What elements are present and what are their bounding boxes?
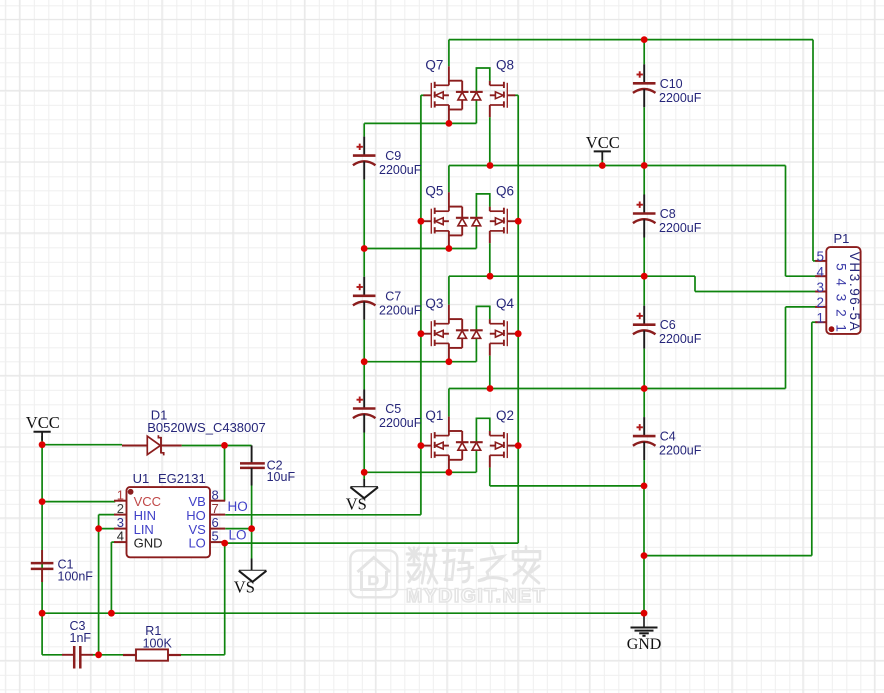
svg-text:HO: HO — [186, 508, 206, 523]
svg-text:Q2: Q2 — [496, 408, 514, 423]
svg-text:4: 4 — [117, 529, 124, 544]
svg-text:C10: C10 — [660, 77, 683, 91]
svg-text:1nF: 1nF — [70, 631, 92, 645]
svg-text:2200uF: 2200uF — [659, 221, 702, 235]
svg-text:Q5: Q5 — [425, 183, 443, 198]
svg-text:EG2131: EG2131 — [158, 471, 206, 486]
svg-text:VH3.96-5A: VH3.96-5A — [847, 252, 862, 332]
svg-text:1: 1 — [816, 311, 824, 326]
svg-text:P1: P1 — [834, 231, 850, 246]
svg-text:Q8: Q8 — [496, 58, 514, 73]
svg-text:4: 4 — [816, 265, 824, 280]
svg-text:100nF: 100nF — [58, 570, 94, 584]
svg-text:7: 7 — [212, 501, 219, 516]
svg-text:1: 1 — [117, 487, 124, 502]
svg-text:C5: C5 — [385, 402, 401, 416]
svg-text:5: 5 — [816, 249, 824, 264]
svg-text:C7: C7 — [385, 289, 401, 303]
svg-text:LO: LO — [229, 528, 247, 543]
svg-text:2200uF: 2200uF — [659, 444, 702, 458]
svg-text:2200uF: 2200uF — [379, 163, 422, 177]
svg-text:LO: LO — [188, 536, 205, 551]
svg-text:8: 8 — [212, 487, 219, 502]
svg-text:100K: 100K — [143, 636, 173, 650]
svg-text:2: 2 — [117, 501, 124, 516]
svg-text:5: 5 — [212, 529, 219, 544]
svg-text:VCC: VCC — [586, 133, 620, 152]
svg-text:C6: C6 — [660, 318, 676, 332]
svg-text:VS: VS — [234, 577, 255, 596]
svg-text:2200uF: 2200uF — [659, 91, 702, 105]
svg-text:Q6: Q6 — [496, 183, 514, 198]
svg-text:2200uF: 2200uF — [379, 416, 422, 430]
svg-text:C9: C9 — [385, 149, 401, 163]
svg-text:Q7: Q7 — [425, 58, 443, 73]
svg-text:2200uF: 2200uF — [379, 303, 422, 317]
svg-text:C4: C4 — [660, 430, 676, 444]
svg-text:3: 3 — [834, 294, 849, 302]
svg-text:U1: U1 — [133, 471, 150, 486]
svg-text:VS: VS — [346, 495, 367, 514]
svg-text:C8: C8 — [660, 207, 676, 221]
svg-text:HO: HO — [228, 499, 248, 514]
svg-text:Q1: Q1 — [425, 408, 443, 423]
svg-text:B0520WS_C438007: B0520WS_C438007 — [147, 420, 266, 435]
svg-text:1: 1 — [834, 324, 849, 332]
svg-text:2200uF: 2200uF — [659, 332, 702, 346]
svg-text:VCC: VCC — [26, 413, 60, 432]
svg-text:Q3: Q3 — [425, 296, 443, 311]
svg-text:5: 5 — [834, 263, 849, 271]
svg-text:VB: VB — [188, 494, 205, 509]
svg-text:10uF: 10uF — [267, 470, 296, 484]
svg-text:2: 2 — [834, 309, 849, 317]
svg-text:3: 3 — [816, 280, 824, 295]
svg-text:HIN: HIN — [134, 508, 156, 523]
svg-text:2: 2 — [816, 295, 824, 310]
svg-text:MYDIGIT.NET: MYDIGIT.NET — [406, 585, 546, 607]
svg-text:VCC: VCC — [134, 494, 161, 509]
svg-text:4: 4 — [834, 278, 849, 286]
svg-text:Q4: Q4 — [496, 296, 515, 311]
svg-text:GND: GND — [627, 636, 662, 653]
svg-text:GND: GND — [134, 536, 163, 551]
